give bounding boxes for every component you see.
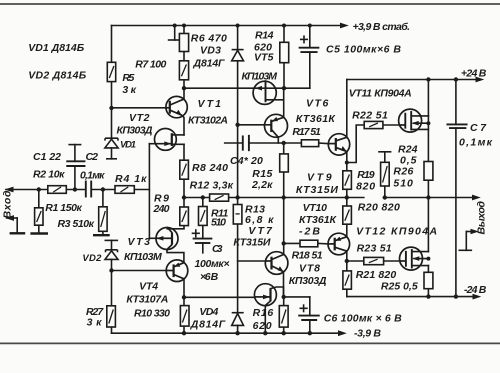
svg-text:R16: R16 (253, 307, 274, 319)
svg-text:КТ361К: КТ361К (296, 113, 337, 125)
svg-text:R1 150к: R1 150к (45, 202, 82, 214)
svg-text:620: 620 (253, 320, 272, 332)
svg-text:VD2: VD2 (82, 253, 102, 264)
svg-text:×6 В: ×6 В (200, 271, 219, 283)
svg-text:Д814Г: Д814Г (190, 318, 226, 330)
svg-text:R21 820: R21 820 (356, 269, 397, 281)
svg-text:0,1мк: 0,1мк (459, 136, 493, 148)
svg-text:Вход: Вход (2, 190, 14, 219)
svg-text:+24 В: +24 В (461, 67, 487, 79)
svg-text:510: 510 (393, 178, 413, 190)
svg-text:R10 330: R10 330 (134, 308, 170, 320)
svg-text:100мк×: 100мк× (195, 258, 230, 270)
svg-text:R6 470: R6 470 (191, 33, 227, 45)
svg-text:R5: R5 (122, 72, 134, 84)
svg-text:R14: R14 (255, 30, 274, 42)
svg-text:R17 51: R17 51 (292, 126, 321, 138)
svg-text:R2 10к: R2 10к (33, 168, 65, 180)
svg-text:КП103М: КП103М (242, 71, 278, 83)
svg-text:C2: C2 (86, 151, 99, 163)
svg-text:R3 510к: R3 510к (58, 218, 95, 230)
svg-text:КП103М: КП103М (124, 251, 162, 263)
svg-text:VD3: VD3 (200, 45, 221, 57)
svg-text:КП303Д: КП303Д (117, 125, 153, 137)
svg-text:0,1мк: 0,1мк (80, 169, 105, 181)
svg-text:C1 22: C1 22 (33, 151, 61, 163)
svg-text:820: 820 (356, 180, 375, 192)
svg-text:VD2 Д814Б: VD2 Д814Б (28, 70, 87, 82)
svg-text:С6 100мк × 6 В: С6 100мк × 6 В (324, 312, 402, 324)
svg-text:КТ361К: КТ361К (299, 214, 338, 226)
svg-text:R12 3,3к: R12 3,3к (190, 180, 234, 192)
svg-text:510: 510 (211, 217, 226, 229)
svg-text:VT8: VT8 (299, 263, 320, 275)
svg-text:VD4: VD4 (199, 306, 218, 318)
svg-text:VT6: VT6 (306, 98, 328, 110)
svg-text:VD1 Д814Б: VD1 Д814Б (28, 42, 85, 54)
svg-text:R8 240: R8 240 (192, 162, 228, 174)
svg-text:VT2: VT2 (129, 112, 150, 124)
svg-text:VT11 КП904А: VT11 КП904А (349, 88, 412, 100)
svg-text:VT1: VT1 (198, 98, 222, 110)
svg-text:Д814Г: Д814Г (193, 58, 226, 70)
svg-text:-3,9 В: -3,9 В (354, 328, 381, 340)
svg-text:2,2к: 2,2к (251, 179, 273, 191)
svg-text:+3,9 В стаб.: +3,9 В стаб. (353, 21, 411, 33)
svg-text:С5 100мк×6 В: С5 100мк×6 В (326, 43, 401, 55)
svg-text:VD1: VD1 (120, 140, 136, 151)
svg-text:КТ315И: КТ315И (296, 184, 338, 196)
svg-text:КП303Д: КП303Д (289, 275, 327, 287)
svg-text:VT9: VT9 (307, 172, 332, 184)
svg-text:-24 В: -24 В (464, 284, 487, 296)
svg-text:R22 51: R22 51 (352, 110, 388, 122)
svg-text:R20 820: R20 820 (358, 202, 400, 214)
svg-text:R23 51: R23 51 (357, 243, 392, 255)
svg-text:240: 240 (153, 203, 170, 215)
svg-text:R7 100: R7 100 (135, 59, 166, 71)
svg-text:VT10: VT10 (303, 202, 328, 214)
svg-text:R19: R19 (357, 169, 375, 181)
svg-text:VT5: VT5 (254, 52, 274, 64)
svg-text:КТ315И: КТ315И (233, 236, 270, 248)
svg-text:R18 51: R18 51 (292, 250, 323, 262)
svg-text:С4* 20: С4* 20 (230, 155, 263, 167)
svg-text:VT4: VT4 (139, 280, 158, 292)
svg-text:Выход: Выход (476, 201, 488, 235)
svg-text:R26: R26 (393, 166, 413, 178)
svg-text:КТ3102А: КТ3102А (188, 115, 228, 127)
svg-text:C3: C3 (212, 243, 223, 255)
svg-text:КТ3107А: КТ3107А (126, 294, 168, 306)
svg-text:VT12 КП904А: VT12 КП904А (356, 226, 437, 238)
svg-text:-2В: -2В (299, 226, 320, 238)
svg-text:R4 1к: R4 1к (115, 173, 147, 185)
svg-text:VT7: VT7 (248, 225, 273, 237)
svg-text:R25 0,5: R25 0,5 (381, 281, 418, 293)
svg-text:VT3: VT3 (128, 236, 151, 248)
